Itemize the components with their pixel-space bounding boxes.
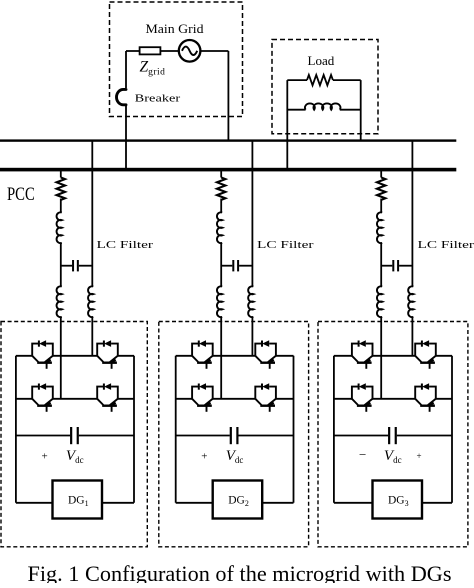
inductor L2c (left, lower) (217, 286, 222, 317)
inductor L1c (left, lower) (57, 286, 62, 317)
wire: load bottom left (287, 109, 305, 111)
wire: top rail (176, 355, 294, 357)
DG unit 1 enclosure (dashed box) (1, 322, 147, 547)
transistor Q34 (bottom-right IGBT) (415, 383, 436, 412)
wire: branch2 left conductor from lower bus (220, 170, 222, 178)
breaker SW (arc) (117, 89, 126, 104)
wire: branch3 right conductor into inverter (411, 317, 413, 356)
wire: branch3 right conductor from upper bus (411, 141, 413, 287)
svg-text:+: + (417, 451, 422, 461)
wire: load top right (333, 79, 361, 81)
inductor L2b (right, lower) (248, 286, 253, 317)
wire: load left leg to lower bus (286, 80, 288, 169)
wire: bottom right to DG (422, 502, 452, 504)
wire: bottom left to DG (16, 502, 53, 504)
transistor Q32 (top-right IGBT) (415, 340, 436, 369)
transistor Q33 (bottom-left IGBT) (352, 383, 373, 412)
wire (380, 199, 382, 213)
transistor Q21 (top-left IGBT) (192, 340, 213, 369)
transistor Q23 (bottom-left IGBT) (192, 383, 213, 412)
svg-text:−: − (359, 447, 366, 462)
svg-text:PCC: PCC (7, 185, 35, 205)
AC source G (179, 40, 201, 62)
capacitor Cdc3 (DC link) (334, 427, 452, 444)
transistor Q14 (bottom-right IGBT) (97, 383, 118, 412)
wire: top rail (16, 355, 134, 357)
DG unit 2 enclosure (dashed box) (159, 322, 309, 547)
svg-text:LC Filter: LC Filter (97, 239, 154, 251)
capacitor C3 (filter) (381, 260, 412, 271)
inductor L3a spring section (377, 178, 385, 200)
bus PCC upper line (0, 139, 456, 141)
wire: bottom left to DG (176, 502, 213, 504)
capacitor C2 (filter) (221, 260, 252, 271)
wire: bottom left to DG (334, 502, 373, 504)
svg-text:Fig. 1 Configuration of the mi: Fig. 1 Configuration of the microgrid wi… (28, 561, 452, 583)
transistor Q24 (bottom-right IGBT) (255, 383, 276, 412)
wire: DC- right rail (133, 356, 135, 503)
wire: top rail (334, 355, 452, 357)
inductor L3c (left, lower) (377, 286, 382, 317)
wire: grid left drop (above breaker) (125, 51, 127, 88)
svg-text:Breaker: Breaker (135, 93, 181, 105)
transistor Q13 (bottom-left IGBT) (32, 383, 53, 412)
wire: branch1 left conductor into inverter (60, 317, 62, 399)
source DG1 (box) (53, 481, 103, 519)
inductor L2a (left, upper) (217, 212, 222, 243)
wire: DC+ left rail (175, 356, 177, 503)
wire: source loop top (126, 50, 228, 52)
svg-text:Load: Load (308, 54, 336, 68)
wire: branch1 right conductor from upper bus (91, 141, 93, 287)
wire (220, 199, 222, 213)
wire: grid right drop to upper bus (227, 51, 229, 141)
wire: branch3 left conductor into inverter (380, 317, 382, 399)
bus PCC lower line (thick) (0, 168, 456, 172)
main grid enclosure (dashed box) (110, 2, 243, 117)
inductor L load (305, 103, 340, 109)
wire: DC+ left rail (333, 356, 335, 503)
capacitor Cdc1 (DC link) (16, 427, 134, 444)
svg-text:LC Filter: LC Filter (257, 239, 314, 251)
wire: DC+ left rail (15, 356, 17, 503)
source DG2 (box) (213, 481, 263, 519)
wire: DC- right rail (451, 356, 453, 503)
transistor Q12 (top-right IGBT) (97, 340, 118, 369)
resistor R load (307, 75, 333, 85)
wire: middle rail (16, 398, 134, 400)
impedance Zgrid (rectangle) (140, 47, 161, 54)
wire: load top left (287, 79, 307, 81)
source DG3 (box) (373, 481, 423, 519)
wire (60, 199, 62, 213)
inductor L1a spring section (57, 178, 65, 200)
svg-text:Main Grid: Main Grid (146, 22, 205, 36)
inductor L3a (left, upper) (377, 212, 382, 243)
transistor Q22 (top-right IGBT) (255, 340, 276, 369)
wire: branch2 left conductor into inverter (220, 317, 222, 399)
svg-text:LC Filter: LC Filter (418, 239, 474, 251)
svg-text:+: + (42, 451, 48, 463)
capacitor Cdc2 (DC link) (176, 427, 294, 444)
wire: middle rail (176, 398, 294, 400)
wire: load bottom right (340, 109, 361, 111)
wire: branch1 right conductor into inverter (91, 317, 93, 356)
wire: branch1 left conductor from lower bus (60, 170, 62, 178)
inductor L3b (right, lower) (408, 286, 413, 317)
wire (220, 243, 222, 287)
wire: middle rail (334, 398, 452, 400)
inductor L1a (left, upper) (57, 212, 62, 243)
wire: branch2 right conductor into inverter (251, 317, 253, 356)
svg-text:+: + (201, 451, 207, 463)
DG unit 3 enclosure (dashed box) (318, 322, 468, 547)
wire: bottom right to DG (102, 502, 134, 504)
inductor L2a spring section (217, 178, 225, 200)
wire: grid left drop (below breaker) to lower bus (125, 106, 127, 170)
wire: branch3 left conductor from lower bus (380, 170, 382, 178)
load enclosure (dashed box) (272, 40, 378, 134)
wire: load right leg to upper bus (360, 80, 362, 140)
wire: branch2 right conductor from upper bus (251, 141, 253, 287)
transistor Q31 (top-left IGBT) (352, 340, 373, 369)
wire: DC- right rail (293, 356, 295, 503)
transistor Q11 (top-left IGBT) (32, 340, 53, 369)
capacitor C1 (filter) (61, 260, 93, 271)
wire (380, 243, 382, 287)
inductor L1b (right, lower) (88, 286, 93, 317)
wire: bottom right to DG (262, 502, 293, 504)
wire (60, 243, 62, 287)
